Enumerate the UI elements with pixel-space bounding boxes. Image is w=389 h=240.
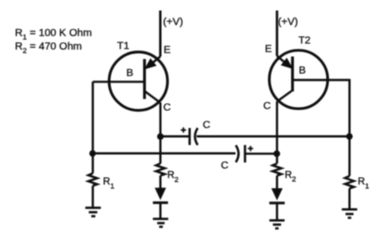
svg-text:R1 = 100 K Ohm: R1 = 100 K Ohm [15, 27, 92, 42]
LED D1 [156, 188, 166, 199]
wire right vertical lower [348, 136, 350, 176]
svg-text:C: C [221, 160, 229, 172]
LED D2 [272, 189, 282, 200]
svg-text:T1: T1 [117, 40, 129, 52]
svg-text:R2: R2 [285, 170, 296, 184]
wire T2 collector vertical [276, 102, 278, 164]
node right [346, 133, 353, 140]
ground G1 [85, 208, 101, 216]
svg-text:R2: R2 [167, 170, 178, 184]
wire +V right [276, 11, 278, 57]
node right junction [274, 150, 281, 157]
node left junction [89, 150, 96, 157]
resistor R2 right [273, 164, 282, 176]
svg-text:C: C [203, 119, 211, 131]
svg-text:B: B [126, 67, 133, 79]
wire [159, 176, 161, 189]
resistor R1 left [88, 173, 97, 186]
svg-text:R2 = 470 Ohm: R2 = 470 Ohm [15, 40, 82, 55]
ground G2 [153, 219, 168, 227]
svg-text:T2: T2 [298, 35, 310, 47]
svg-text:R1: R1 [103, 177, 114, 191]
plus bottom cap [248, 146, 253, 151]
wire [159, 203, 161, 219]
node A [157, 133, 164, 140]
wire top cap left [160, 135, 188, 137]
wire +V left [159, 11, 161, 57]
resistor R2 left [156, 164, 165, 176]
ground G3 [269, 220, 284, 228]
resistor R1 right [345, 176, 354, 188]
wire T2 base [293, 80, 350, 136]
wire left vertical [92, 82, 94, 173]
svg-text:R1: R1 [358, 177, 369, 191]
wire [276, 203, 278, 220]
svg-text:(+V): (+V) [278, 16, 298, 28]
ground G4 [342, 209, 357, 217]
wire T1 base [93, 81, 145, 83]
plus top cap [181, 127, 186, 132]
wire [92, 186, 94, 208]
svg-text:E: E [265, 43, 272, 55]
wire [276, 176, 278, 190]
transistor T2 [269, 50, 327, 108]
wire bottom cap right [245, 153, 277, 155]
capacitor C bottom [236, 145, 245, 163]
wire bottom cap left [93, 152, 236, 154]
svg-text:B: B [299, 65, 306, 77]
svg-text:E: E [164, 44, 171, 56]
svg-text:C: C [163, 102, 171, 114]
svg-text:C: C [263, 100, 271, 112]
svg-text:(+V): (+V) [163, 16, 183, 28]
wire [348, 188, 350, 209]
wire top cap right [197, 135, 350, 137]
capacitor C top [190, 128, 198, 145]
wire T1 collector vertical [159, 103, 161, 164]
transistor T1 [109, 52, 167, 110]
